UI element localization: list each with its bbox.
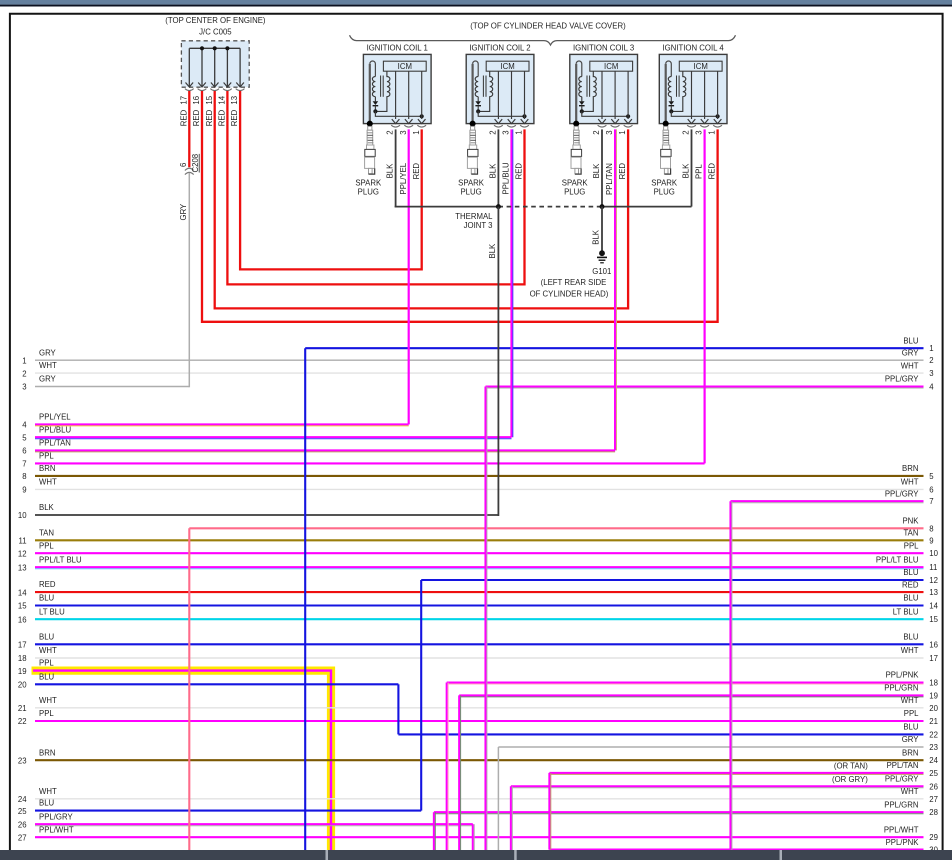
svg-text:G101: G101 (592, 267, 611, 276)
svg-text:14: 14 (929, 602, 938, 611)
wire BLK L10 y=515.0 (18, 503, 498, 520)
label BLK coil 2 pin2 (489, 163, 498, 179)
svg-text:(OR TAN): (OR TAN) (834, 762, 868, 771)
label BLK coil 3 pin2 (592, 163, 601, 179)
junction connector J/C C005 (181, 28, 249, 88)
wire BLU R22 y=734.4 (398, 723, 938, 740)
label BLK on long drop (488, 243, 497, 259)
top chrome dark line (0, 5, 952, 7)
wire PNK right-8 drop x=189.3 (188, 528, 190, 851)
label THERMAL JOINT 3 (455, 212, 493, 230)
wire PPL/GRY L26 y=824.2 (18, 812, 473, 829)
svg-text:PPL/TAN: PPL/TAN (605, 163, 614, 195)
svg-text:25: 25 (929, 769, 938, 778)
svg-text:PPL/BLU: PPL/BLU (502, 162, 511, 194)
ground G101 symbol (597, 250, 607, 262)
svg-text:9: 9 (929, 536, 933, 545)
wire WHT L24 R27 y=798.8 (18, 787, 938, 804)
svg-text:24: 24 (18, 795, 27, 804)
wire PPL/GRY right-7 drop x=730.5 (731, 501, 732, 851)
svg-text:WHT: WHT (39, 646, 57, 655)
svg-text:BLK: BLK (386, 163, 395, 179)
svg-text:BLK: BLK (39, 503, 55, 512)
svg-text:21: 21 (18, 704, 27, 713)
svg-text:3: 3 (605, 130, 614, 134)
svg-text:WHT: WHT (901, 787, 919, 796)
svg-text:PPL/TAN: PPL/TAN (887, 761, 919, 770)
svg-text:3: 3 (502, 130, 511, 134)
svg-text:WHT: WHT (39, 478, 57, 487)
svg-text:PPL/PNK: PPL/PNK (886, 838, 920, 847)
wire BLK long drop to bus L10 (497, 207, 499, 516)
svg-text:(OR GRY): (OR GRY) (832, 775, 868, 784)
pin number 6 of C208 (179, 163, 188, 167)
coil 2 pin numbers 2 3 1 (489, 130, 524, 134)
svg-text:16: 16 (192, 96, 201, 105)
wire GRY L1 R2 y=360.2 (22, 348, 933, 365)
svg-text:(TOP OF CYLINDER HEAD VALVE CO: (TOP OF CYLINDER HEAD VALVE COVER) (470, 22, 626, 31)
svg-text:BLK: BLK (592, 163, 601, 179)
wire WHT L18 R17 y=658.0 (18, 646, 938, 663)
svg-text:20: 20 (18, 681, 27, 690)
wire PPL/GRY right-26 drop x=510.9 (511, 786, 512, 851)
wire BRN L8 R5 y=475.9 (22, 464, 934, 481)
label RED coil 3 pin1 (618, 163, 627, 180)
svg-text:(TOP CENTER OF ENGINE): (TOP CENTER OF ENGINE) (165, 16, 266, 25)
wire BLK G101 stem (601, 207, 603, 251)
coil 1 pin numbers 2 3 1 (386, 130, 421, 134)
wire BLU right-12 to left-25 x=421.2 (420, 580, 422, 811)
wire PPL/PNK R18 y=682.5 (447, 671, 938, 688)
svg-text:LT BLU: LT BLU (893, 607, 919, 616)
wire PPL/PNK right-18 drop x=446.7 (447, 683, 448, 852)
svg-text:23: 23 (18, 756, 27, 765)
svg-text:SPARK: SPARK (355, 179, 382, 188)
wire BLU L20 y=684.3 (18, 672, 398, 689)
svg-text:JOINT 3: JOINT 3 (464, 221, 493, 230)
wire BLK bus to coil4 (602, 206, 692, 208)
svg-text:PPL: PPL (39, 709, 54, 718)
svg-text:PPL/GRY: PPL/GRY (885, 489, 919, 498)
wire PPL/BLU L5 y=437.2 (22, 425, 511, 442)
wire BLK coil4 pin2 drop (691, 129, 693, 206)
svg-text:8: 8 (929, 524, 933, 533)
wire PPL/TAN coil pin3 drop x=615.1 (615, 129, 616, 450)
label RED coil 1 pin1 (412, 163, 421, 180)
wire BLU left-20 to right-22 x=398.4 (397, 684, 399, 734)
svg-text:RED: RED (412, 163, 421, 180)
coil 3 pin cups (598, 125, 633, 127)
svg-text:13: 13 (18, 563, 27, 572)
label RED pin 13 (230, 109, 239, 126)
svg-text:RED: RED (179, 109, 188, 126)
svg-text:SPARK: SPARK (651, 179, 678, 188)
svg-text:1: 1 (929, 344, 933, 353)
J/C pin path 17 (185, 48, 194, 90)
label BLK on G101 stem (592, 229, 601, 245)
svg-text:IGNITION COIL 1: IGNITION COIL 1 (367, 44, 428, 53)
svg-text:PPL/GRN: PPL/GRN (884, 684, 918, 693)
wire RED J/C 15 to coil3 (215, 91, 628, 308)
wire PPL/YEL coil pin3 drop x=408.7 (408, 129, 410, 424)
svg-text:BLU: BLU (903, 633, 919, 642)
label RED pin 16 (192, 109, 201, 126)
wire PPL/TAN R25 y=772.9 (549, 761, 938, 778)
svg-text:15: 15 (205, 95, 214, 104)
svg-text:BRN: BRN (39, 748, 55, 757)
wire PPL L12 R10 y=553.2 (18, 541, 939, 558)
svg-text:WHT: WHT (39, 361, 57, 370)
svg-text:19: 19 (929, 691, 938, 700)
wire PPL/GRY R26 y=786.3 (511, 775, 938, 792)
svg-text:14: 14 (218, 95, 227, 104)
svg-text:PPL: PPL (39, 541, 54, 550)
J/C bus junction dots (200, 46, 230, 50)
wire GRY right-23 drop x=498.4 (497, 747, 499, 851)
svg-text:PPL/BLU: PPL/BLU (39, 425, 71, 434)
wire PNK R8 y=528.3 (189, 517, 933, 534)
bottom status bar (0, 850, 952, 860)
svg-text:LT BLU: LT BLU (39, 607, 65, 616)
wire RED L14 R13 y=592.1 (18, 580, 938, 597)
wire PPL/GRN R28 y=812.2 (434, 800, 938, 817)
svg-text:15: 15 (18, 602, 27, 611)
wire RED J/C 13 to coil1 (240, 91, 422, 269)
label RED coil 2 pin1 (515, 163, 524, 180)
svg-text:3: 3 (399, 130, 408, 134)
J/C pin path 15 (210, 48, 219, 90)
svg-text:6: 6 (22, 447, 26, 456)
wire WHT L2 R3 y=373.1 (22, 361, 933, 378)
wire RED J/C 14 to coil2 (227, 91, 524, 284)
svg-text:21: 21 (929, 717, 938, 726)
pin number 16 (192, 96, 201, 105)
svg-text:BLU: BLU (903, 568, 919, 577)
svg-text:10: 10 (18, 511, 27, 520)
coil 3 pin numbers 2 3 1 (592, 130, 627, 134)
label PPL/BLU coil 2 pin3 (502, 162, 511, 194)
wire BLU right-1 drop x=305.2 (304, 348, 306, 851)
label of selected wire PPL L19 (18, 659, 54, 676)
svg-text:28: 28 (929, 808, 938, 817)
svg-text:26: 26 (929, 782, 938, 791)
label RED pin 15 (205, 109, 214, 126)
svg-text:IGNITION COIL 2: IGNITION COIL 2 (469, 44, 530, 53)
wire GRY C208 down to bus L3 (188, 173, 190, 387)
svg-text:OF CYLINDER HEAD): OF CYLINDER HEAD) (530, 290, 609, 299)
svg-text:29: 29 (929, 833, 938, 842)
spark plug 4 (651, 126, 678, 196)
svg-text:10: 10 (929, 549, 938, 558)
svg-text:THERMAL: THERMAL (455, 212, 493, 221)
wire BLK coil3 pin2 drop (601, 129, 603, 206)
wire PPL/LT BLU L13 R11 y=567.2 (18, 555, 937, 572)
label BLK coil 1 pin2 (386, 163, 395, 179)
label PPL/TAN coil 3 pin3 (605, 163, 614, 195)
wire TAN L11 R9 y=540.3 (19, 528, 934, 545)
svg-text:2: 2 (592, 130, 601, 134)
ignition coil 1 (coil U1) (363, 44, 431, 127)
svg-text:2: 2 (386, 130, 395, 134)
svg-text:24: 24 (929, 756, 938, 765)
wire PPL L7 y=463.4 (22, 452, 704, 469)
wire BLK coil1 pin2 drop (395, 129, 397, 206)
svg-text:20: 20 (929, 704, 938, 713)
svg-text:7: 7 (22, 460, 26, 469)
svg-text:RED: RED (192, 109, 201, 126)
svg-text:PPL/GRN: PPL/GRN (884, 800, 918, 809)
svg-text:RED: RED (618, 163, 627, 180)
svg-text:GRY: GRY (179, 203, 188, 221)
svg-text:PPL/WHT: PPL/WHT (884, 825, 919, 834)
svg-text:18: 18 (929, 679, 938, 688)
wire WHT L21 R20 y=707.8 (18, 696, 939, 713)
svg-text:16: 16 (929, 640, 938, 649)
svg-text:PPL/TAN: PPL/TAN (39, 439, 71, 448)
svg-text:WHT: WHT (39, 787, 57, 796)
ignition coil 3 (coil U3) (570, 44, 638, 127)
wire BLU L15 R14 y=605.5 (18, 594, 939, 611)
svg-text:PPL/GRY: PPL/GRY (885, 775, 919, 784)
svg-text:2: 2 (929, 356, 933, 365)
svg-text:2: 2 (489, 130, 498, 134)
svg-text:BLU: BLU (903, 723, 919, 732)
svg-text:3: 3 (22, 383, 26, 392)
svg-text:2: 2 (682, 130, 691, 134)
svg-text:13: 13 (230, 96, 239, 105)
svg-text:PPL/YEL: PPL/YEL (39, 413, 71, 422)
svg-text:12: 12 (929, 576, 938, 585)
wire PPL/GRY R4 y=386.5 (486, 375, 935, 392)
svg-text:C208: C208 (191, 154, 200, 173)
svg-text:RED: RED (708, 163, 717, 180)
status bar separator 2 (514, 850, 517, 860)
svg-text:3: 3 (695, 130, 704, 134)
label BLK coil 4 pin2 (682, 163, 691, 179)
svg-text:BLK: BLK (682, 163, 691, 179)
svg-text:PPL: PPL (39, 659, 54, 668)
svg-text:1: 1 (708, 130, 717, 134)
wire PPL/GRY R7 y=501.2 (731, 489, 934, 506)
svg-text:18: 18 (18, 654, 27, 663)
svg-text:4: 4 (929, 383, 934, 392)
highlight glow of selected wire PPL (left 19) (32, 671, 332, 851)
status bar separator 1 (326, 850, 329, 860)
spark plug 3 (562, 126, 589, 196)
spark plug 1 (355, 126, 382, 196)
wire PPL coil pin3 drop x=704.6 (703, 129, 705, 463)
label RED pin 17 (179, 109, 188, 126)
wire PPL L22 R21 y=721.0 (18, 709, 938, 726)
label RED coil 4 pin1 (708, 163, 717, 180)
svg-text:BLU: BLU (903, 336, 919, 345)
pin number 17 (179, 96, 188, 105)
svg-text:IGNITION COIL 3: IGNITION COIL 3 (573, 44, 634, 53)
coil 2 pin cups (494, 125, 529, 127)
svg-text:PPL: PPL (695, 164, 704, 179)
coil 4 pin cups (687, 125, 722, 127)
svg-text:PPL/LT BLU: PPL/LT BLU (876, 555, 919, 564)
svg-text:PLUG: PLUG (460, 188, 481, 197)
J/C pin path 14 (223, 48, 232, 90)
svg-text:TAN: TAN (903, 529, 918, 538)
coil 1 pin cups (391, 125, 426, 127)
pin number 14 (218, 95, 227, 104)
svg-text:RED: RED (902, 580, 919, 589)
svg-text:22: 22 (929, 730, 938, 739)
svg-text:BRN: BRN (902, 748, 918, 757)
svg-text:17: 17 (18, 641, 27, 650)
svg-text:WHT: WHT (39, 696, 57, 705)
svg-text:WHT: WHT (901, 361, 919, 370)
svg-text:RED: RED (515, 163, 524, 180)
wire PPL/GRN right-28 drop x=433.9 (434, 812, 435, 851)
svg-text:WHT: WHT (901, 478, 919, 487)
svg-text:PPL/GRY: PPL/GRY (885, 375, 919, 384)
svg-text:6: 6 (179, 163, 188, 167)
svg-text:WHT: WHT (901, 646, 919, 655)
wire PPL/GRN right-19 drop x=459.2 (459, 695, 460, 851)
svg-text:27: 27 (929, 795, 938, 804)
svg-text:SPARK: SPARK (458, 179, 485, 188)
svg-text:2: 2 (22, 369, 26, 378)
label RED pin 14 (218, 109, 227, 126)
wire GRY L3 y=386.5 (22, 375, 189, 392)
svg-text:19: 19 (18, 667, 27, 676)
svg-text:1: 1 (22, 356, 26, 365)
wire PPL/YEL L4 y=424.4 (22, 413, 408, 430)
wire PPL/GRY left-26 drop x=472.8 (473, 824, 474, 851)
inline connector C208 (185, 168, 194, 174)
wire PPL/TAN right-25 to PPL/PNK right-30 x=549.4 (549, 773, 550, 850)
junction dot at coil3 BLK (600, 204, 605, 209)
svg-text:5: 5 (22, 433, 27, 442)
svg-text:17: 17 (179, 96, 188, 105)
label PPL coil 4 pin3 (695, 164, 704, 179)
svg-text:PPL: PPL (904, 541, 919, 550)
svg-text:1: 1 (412, 130, 421, 134)
svg-text:BLU: BLU (39, 799, 55, 808)
wire PPL/BLU coil pin3 drop x=511.5 (512, 129, 513, 437)
svg-text:1: 1 (618, 130, 627, 134)
svg-text:BLK: BLK (488, 243, 497, 259)
svg-text:6: 6 (929, 485, 933, 494)
wire RED J/C pin17 to C208 (188, 91, 190, 167)
svg-text:WHT: WHT (901, 696, 919, 705)
svg-text:BRN: BRN (902, 464, 918, 473)
ignition coil 2 (coil U2) (466, 44, 534, 127)
pin number 15 (205, 95, 214, 104)
svg-text:15: 15 (929, 615, 938, 624)
svg-text:27: 27 (18, 833, 27, 842)
spark plug 2 (458, 126, 485, 196)
svg-text:BLU: BLU (39, 594, 55, 603)
svg-text:PLUG: PLUG (654, 188, 675, 197)
svg-text:PPL/PNK: PPL/PNK (886, 671, 920, 680)
svg-text:RED: RED (39, 580, 56, 589)
status bar separator 3 (780, 850, 783, 860)
svg-text:TAN: TAN (39, 528, 54, 537)
svg-text:14: 14 (18, 588, 27, 597)
svg-text:GRY: GRY (39, 375, 57, 384)
J/C pin path 16 (198, 48, 207, 90)
wire PPL/GRY right-4 drop x=485.5 (486, 387, 487, 852)
wire BLU L25 y=810.6 (18, 799, 421, 816)
svg-text:PPL: PPL (39, 452, 54, 461)
svg-text:17: 17 (929, 654, 938, 663)
wire BLU L17 R16 y=644.3 (18, 632, 938, 649)
wire PPL/PNK R30 y=849.6 (549, 838, 938, 855)
svg-text:PLUG: PLUG (564, 188, 585, 197)
J/C internal bus (189, 47, 240, 49)
svg-text:PPL/LT BLU: PPL/LT BLU (39, 555, 82, 564)
pin number 13 (230, 96, 239, 105)
svg-text:SPARK: SPARK (562, 179, 589, 188)
svg-text:1: 1 (515, 130, 524, 134)
svg-text:PPL/WHT: PPL/WHT (39, 825, 74, 834)
svg-text:BLU: BLU (39, 632, 55, 641)
svg-text:(LEFT REAR SIDE: (LEFT REAR SIDE (541, 278, 607, 287)
svg-text:PPL: PPL (904, 709, 919, 718)
svg-text:7: 7 (929, 497, 933, 506)
wire PPL/TAN L6 y=450.4 (22, 439, 615, 456)
svg-text:J/C C005: J/C C005 (199, 28, 232, 37)
svg-text:BLK: BLK (592, 229, 601, 245)
svg-text:PPL/GRY: PPL/GRY (39, 812, 73, 821)
wire WHT L9 R6 y=489.4 (22, 478, 933, 495)
svg-text:9: 9 (22, 486, 26, 495)
svg-text:4: 4 (22, 421, 27, 430)
top chrome bar (0, 0, 952, 5)
svg-text:8: 8 (22, 472, 26, 481)
J/C pin path 13 (236, 48, 245, 90)
svg-text:13: 13 (929, 588, 938, 597)
wire PPL left-19 selected (horizontal + vertical) (33, 671, 331, 851)
wire LT BLU L16 R15 y=619.2 (18, 607, 939, 624)
wire BLU R1 y=348.2 (305, 336, 933, 353)
label C208 (191, 154, 200, 173)
svg-text:12: 12 (18, 549, 27, 558)
label GRY below C208 (179, 203, 188, 221)
svg-text:BLU: BLU (39, 672, 55, 681)
svg-text:PPL/YEL: PPL/YEL (399, 162, 408, 194)
wire RED J/C 16 to coil4 (202, 91, 718, 322)
wire BLK coil2 pin2 drop (497, 129, 499, 206)
svg-text:IGNITION COIL 4: IGNITION COIL 4 (662, 44, 724, 53)
svg-text:23: 23 (929, 743, 938, 752)
svg-text:GRY: GRY (902, 735, 920, 744)
label PPL/YEL coil 1 pin3 (399, 162, 408, 194)
svg-text:BLK: BLK (489, 163, 498, 179)
wire BRN L23 R24 y=760.2 (18, 748, 939, 765)
svg-text:3: 3 (929, 369, 933, 378)
svg-text:22: 22 (18, 717, 27, 726)
svg-text:PNK: PNK (902, 517, 919, 526)
coil 4 pin numbers 2 3 1 (682, 130, 717, 134)
junction dot thermal joint (node) (496, 204, 501, 209)
wire PPL/GRN R19 y=695.4 (459, 684, 938, 701)
svg-text:RED: RED (205, 109, 214, 126)
brace over ignition coils (350, 35, 736, 45)
svg-text:GRY: GRY (39, 348, 57, 357)
wire GRY R23 y=747.0 (498, 735, 938, 752)
wire PPL/WHT L27 R29 y=837.2 (18, 825, 938, 842)
svg-text:26: 26 (18, 820, 27, 829)
svg-text:11: 11 (19, 537, 27, 546)
wire BLU R12 y=580.0 (421, 568, 938, 585)
svg-text:BRN: BRN (39, 464, 55, 473)
svg-text:RED: RED (230, 109, 239, 126)
